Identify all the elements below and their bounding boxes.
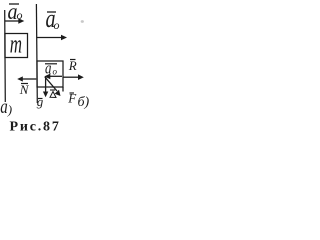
label R	[68, 58, 77, 73]
label F	[67, 91, 77, 106]
small triangle label near mg arrow	[50, 90, 56, 98]
svg-text:б): б)	[78, 95, 90, 110]
svg-text:o: o	[54, 18, 60, 32]
block (diagram b)	[37, 61, 63, 87]
svg-text:R: R	[68, 58, 77, 73]
pressing force arrow (left) inside block	[44, 74, 62, 80]
label g	[37, 94, 44, 109]
svg-text:m: m	[10, 29, 22, 59]
right edge extension below block	[62, 87, 64, 92]
label a0 (diagram a)	[7, 0, 22, 24]
wall line (diagram b)	[35, 4, 38, 103]
normal force N arrow on wall	[17, 76, 36, 81]
weight arrow mg (down)	[43, 77, 48, 97]
acceleration arrow a0 (diagram b)	[37, 35, 67, 40]
faint speck	[81, 20, 84, 23]
svg-text:g: g	[37, 94, 44, 109]
svg-text:Рис.87: Рис.87	[10, 120, 61, 135]
block m (diagram a)	[5, 34, 28, 58]
wall line (diagram a)	[4, 10, 7, 102]
reaction arrow R (right)	[63, 74, 84, 80]
svg-text:o: o	[53, 67, 58, 77]
svg-text:N: N	[19, 82, 30, 97]
resultant arrow F (diagonal)	[45, 77, 61, 96]
label N	[19, 82, 30, 97]
label a0 (diagram b)	[46, 5, 60, 34]
acceleration arrow a0 (diagram a)	[5, 18, 24, 23]
inertial force label inside block	[45, 60, 58, 78]
svg-text:): )	[7, 102, 12, 117]
